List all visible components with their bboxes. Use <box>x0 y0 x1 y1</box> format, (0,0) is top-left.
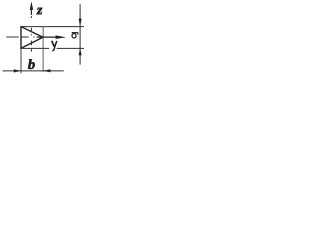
label b (bottom) <box>28 59 35 69</box>
y axis centerline dash inside square <box>21 36 29 38</box>
z axis arrowhead (up) <box>30 1 34 10</box>
triangle top edge <box>21 27 43 38</box>
z axis centerline dot 2 <box>30 34 32 35</box>
vertical dimension line (right, for rotated b) <box>79 4 81 64</box>
z axis centerline dash below square <box>30 49 32 52</box>
vertical dim arrowhead down (tip at top extension line) <box>79 19 82 27</box>
y axis centerline dot <box>33 36 34 38</box>
b dim arrowhead left (tip at right extension line) <box>43 69 50 72</box>
square right edge + extension line down to b dimension <box>42 27 44 72</box>
triangle bottom edge <box>21 37 43 48</box>
label y <box>52 41 55 47</box>
label z <box>36 8 42 15</box>
triangle left edge <box>20 26 22 49</box>
extension line bottom (square bottom edge extended right) <box>20 47 84 49</box>
y axis centerline left dash <box>6 36 19 38</box>
z axis centerline dot 1 <box>30 16 32 18</box>
y axis solid segment to arrow <box>37 36 62 38</box>
extension line top (square top edge extended right) <box>20 26 84 28</box>
b dim arrowhead right (tip at left extension line) <box>14 69 21 72</box>
extension line left (below triangle) <box>20 48 22 73</box>
z axis centerline dash lower <box>30 41 32 46</box>
label b (right, rotated 90 cw) <box>72 33 79 38</box>
white gap in bottom extension line under y label <box>49 47 56 49</box>
y axis arrowhead (right) <box>56 35 66 39</box>
b dimension line (horizontal, arrows outside) <box>3 70 64 72</box>
z axis shaft <box>30 8 32 15</box>
vertical dim arrowhead up (tip at bottom extension line) <box>79 48 82 55</box>
z axis centerline dash inside square <box>30 28 32 32</box>
